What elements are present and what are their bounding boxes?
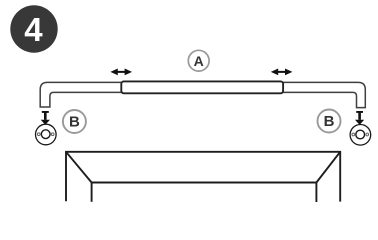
svg-text:B: B — [324, 113, 335, 130]
svg-text:4: 4 — [24, 11, 43, 48]
svg-text:B: B — [69, 114, 80, 131]
svg-text:A: A — [194, 53, 204, 69]
